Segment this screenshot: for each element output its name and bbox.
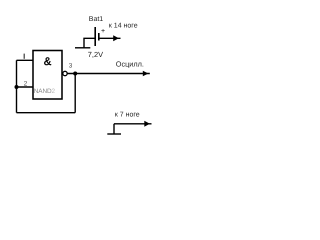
wire battery negative to common bar <box>84 38 95 48</box>
junction at output <box>73 72 77 76</box>
battery Bat1 short plate (positive right) <box>98 33 100 41</box>
svg-text:к 7 ноге: к 7 ноге <box>115 112 140 119</box>
svg-text:7,2V: 7,2V <box>88 50 103 59</box>
wire battery positive to pin 14 <box>99 37 121 39</box>
NAND gate U1 body <box>33 51 62 100</box>
pin 2 input wire <box>17 86 34 88</box>
common bar bottom (rail to pin 7) <box>107 133 121 135</box>
feedback wire left vertical <box>16 60 18 112</box>
wire to pin 7 <box>114 123 152 125</box>
svg-text:3: 3 <box>69 63 73 70</box>
output wire to oscilloscope arrow <box>67 73 150 75</box>
pin 1 number <box>23 54 25 59</box>
wire rail up <box>113 124 115 134</box>
svg-text:Осцилл.: Осцилл. <box>116 60 144 69</box>
battery Bat1 long plate (negative left) <box>94 27 96 46</box>
svg-text:2: 2 <box>24 80 28 87</box>
arrowhead to pin 7 <box>144 121 150 127</box>
arrowhead to pin 14 <box>113 35 119 41</box>
pin 3 output bubble <box>63 71 67 75</box>
feedback wire right vertical <box>74 74 76 113</box>
svg-text:+: + <box>101 28 105 35</box>
svg-text:&: & <box>44 56 52 68</box>
svg-text:Bat1: Bat1 <box>89 16 104 23</box>
arrowhead oscilloscope <box>143 71 149 76</box>
junction at pin 2 <box>15 85 19 89</box>
feedback wire bottom <box>17 112 76 114</box>
common bar top (battery minus rail) <box>75 47 90 49</box>
svg-text:к 14 ноге: к 14 ноге <box>109 23 138 30</box>
pin 1 input wire <box>17 59 34 61</box>
svg-text:NAND2: NAND2 <box>34 88 56 95</box>
